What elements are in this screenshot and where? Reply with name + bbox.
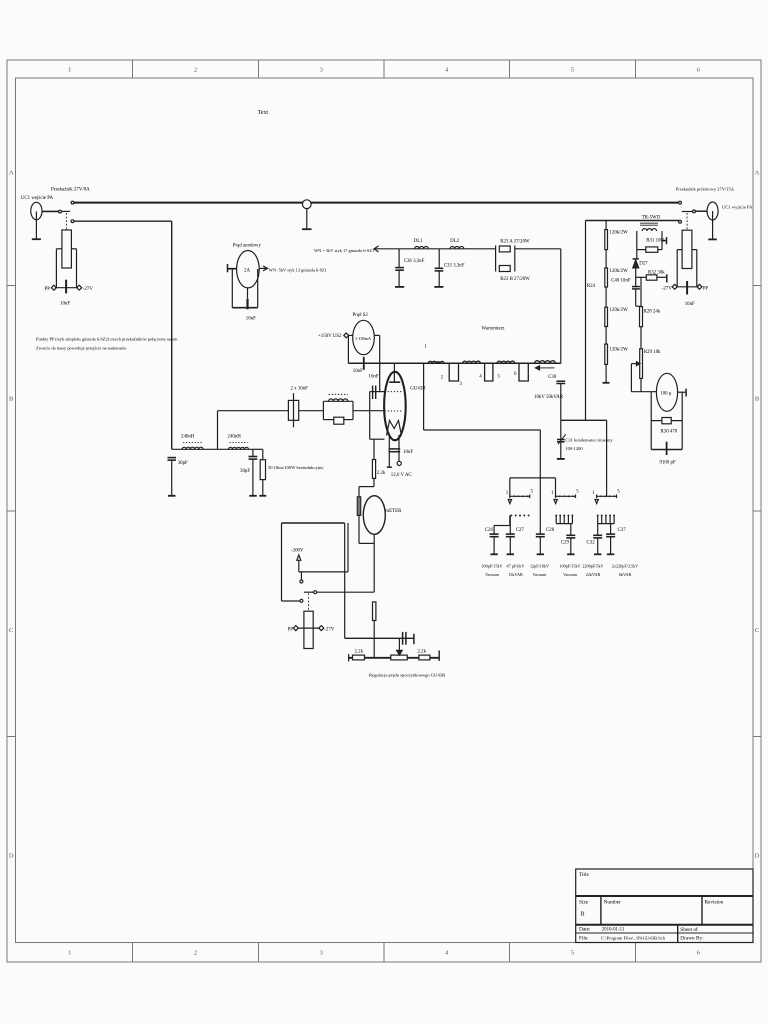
svg-text:C32: C32	[587, 541, 596, 546]
svg-text:PP: PP	[703, 286, 709, 291]
svg-text:10nF: 10nF	[353, 369, 363, 374]
svg-text:C28: C28	[546, 528, 555, 533]
svg-text:120k/2W: 120k/2W	[610, 348, 629, 353]
svg-text:+150V US2: +150V US2	[318, 334, 342, 339]
svg-text:R31 100k: R31 100k	[646, 238, 666, 243]
svg-text:R23 A 27/20W: R23 A 27/20W	[500, 240, 530, 245]
svg-text:Regulacja prądu spoczynkowego: Regulacja prądu spoczynkowego GU43B	[369, 672, 445, 677]
svg-text:C37: C37	[618, 528, 627, 533]
svg-text:D27: D27	[639, 261, 648, 266]
svg-text:240nH: 240nH	[181, 435, 195, 440]
svg-text:100pF/15kV: 100pF/15kV	[559, 564, 580, 569]
svg-text:9100 pF: 9100 pF	[660, 461, 676, 466]
svg-text:DL1: DL1	[414, 239, 424, 244]
svg-text:3: 3	[320, 950, 323, 957]
svg-text:30pF: 30pF	[240, 469, 250, 474]
svg-text:-300V: -300V	[291, 549, 304, 554]
svg-text:10nF: 10nF	[246, 317, 256, 322]
svg-text:WN + 5kV styk 17 gniazda 6-SZ1: WN + 5kV styk 17 gniazda 6-SZ1	[314, 248, 374, 253]
svg-text:120k/2W: 120k/2W	[610, 269, 629, 274]
svg-text:B: B	[581, 912, 585, 918]
svg-text:2 x 10nF: 2 x 10nF	[291, 387, 309, 392]
svg-text:120k/2W: 120k/2W	[610, 231, 629, 236]
svg-text:2.2k: 2.2k	[418, 649, 427, 654]
svg-text:Revision: Revision	[705, 900, 724, 906]
svg-text:Przekaźnik 27V/8A: Przekaźnik 27V/8A	[51, 188, 90, 193]
svg-text:30pF: 30pF	[178, 461, 188, 466]
svg-text:R32 30k: R32 30k	[648, 270, 665, 275]
svg-text:C36 3,3nF: C36 3,3nF	[404, 259, 425, 264]
svg-text:UC1 wyjście PA: UC1 wyjście PA	[722, 205, 753, 210]
svg-text:Size: Size	[579, 900, 589, 906]
svg-text:C33 3,3nF: C33 3,3nF	[444, 264, 465, 269]
svg-text:Przekaźnik próżniowy 27V/15A: Przekaźnik próżniowy 27V/15A	[676, 187, 735, 192]
svg-text:R28 24k: R28 24k	[644, 309, 661, 314]
svg-text:Text: Text	[258, 110, 269, 116]
svg-text:2200pF/5kV: 2200pF/5kV	[582, 564, 603, 569]
svg-text:47 pF/6kV: 47 pF/6kV	[506, 564, 524, 569]
svg-text:PP: PP	[45, 287, 51, 292]
svg-text:D: D	[755, 853, 760, 860]
svg-text:Punkty PP (styk simpleks gniaz: Punkty PP (styk simpleks gniazda 6-SZ2) …	[36, 337, 178, 342]
svg-text:Drawn By:: Drawn By:	[680, 935, 704, 941]
svg-text:6kVAR: 6kVAR	[619, 572, 632, 577]
svg-text:DL2: DL2	[450, 239, 460, 244]
svg-text:Prąd S2: Prąd S2	[353, 313, 369, 318]
svg-text:10kV 50kVAR: 10kV 50kVAR	[534, 395, 564, 400]
svg-text:TR-5WD: TR-5WD	[642, 215, 661, 220]
svg-text:5: 5	[571, 950, 574, 957]
svg-text:2.2k: 2.2k	[355, 649, 364, 654]
svg-text:100-1200: 100-1200	[565, 446, 583, 451]
svg-text:2010-01-11: 2010-01-11	[602, 928, 625, 933]
svg-text:Wariomierz: Wariomierz	[482, 327, 506, 332]
svg-text:2.2k: 2.2k	[377, 471, 386, 476]
svg-text:1: 1	[68, 950, 71, 957]
svg-text:C: C	[755, 627, 759, 634]
svg-text:10nF: 10nF	[60, 302, 70, 307]
svg-text:File:: File:	[579, 935, 589, 941]
svg-text:R24: R24	[587, 284, 596, 289]
svg-text:D: D	[9, 853, 14, 860]
svg-text:R30 470: R30 470	[661, 429, 678, 434]
svg-text:PP: PP	[288, 628, 294, 633]
svg-text:12pF/10kV: 12pF/10kV	[530, 564, 549, 569]
svg-text:2: 2	[194, 67, 197, 74]
svg-text:Vacuum: Vacuum	[533, 572, 547, 577]
svg-text:WN -5kV styk 13 gniazda 6-SZ1: WN -5kV styk 13 gniazda 6-SZ1	[269, 268, 327, 273]
svg-text:C: C	[9, 627, 13, 634]
svg-text:-27V: -27V	[324, 628, 335, 633]
svg-text:C29: C29	[561, 541, 570, 546]
svg-text:100 µ: 100 µ	[660, 392, 671, 397]
svg-text:A: A	[755, 170, 760, 177]
svg-text:R29 10k: R29 10k	[644, 350, 661, 355]
svg-text:B: B	[755, 396, 760, 403]
svg-text:C30: C30	[548, 375, 557, 380]
svg-text:-27V: -27V	[83, 287, 94, 292]
svg-text:10nF: 10nF	[403, 450, 413, 455]
svg-text:300pF/15kV: 300pF/15kV	[481, 564, 502, 569]
svg-text:240nH: 240nH	[228, 435, 242, 440]
svg-text:C27: C27	[516, 528, 525, 533]
svg-text:UC1 wejście PA: UC1 wejście PA	[21, 196, 54, 201]
svg-text:A: A	[9, 170, 14, 177]
svg-text:C:\Program Files\..\PAGU43B.Sc: C:\Program Files\..\PAGU43B.Sch	[601, 935, 666, 940]
svg-text:1: 1	[68, 67, 71, 74]
svg-text:-27V: -27V	[662, 286, 673, 291]
svg-text:2A: 2A	[244, 269, 250, 274]
svg-text:10nF: 10nF	[369, 375, 379, 380]
svg-text:120k/2W: 120k/2W	[610, 308, 629, 313]
svg-text:3: 3	[320, 67, 323, 74]
svg-text:12,6 V AC: 12,6 V AC	[391, 473, 412, 478]
svg-text:Vacuum: Vacuum	[485, 572, 499, 577]
svg-text:Prąd anodowy: Prąd anodowy	[233, 244, 262, 249]
svg-text:C40 10nF: C40 10nF	[611, 278, 631, 283]
svg-text:22kVAR: 22kVAR	[586, 572, 601, 577]
svg-text:Title: Title	[579, 872, 589, 878]
svg-text:Date:: Date:	[579, 927, 591, 933]
svg-text:C31 kondensator zmienny: C31 kondensator zmienny	[565, 437, 613, 442]
svg-text:2: 2	[194, 950, 197, 957]
svg-text:Vacuum: Vacuum	[563, 572, 577, 577]
svg-text:C26: C26	[485, 528, 494, 533]
svg-text:50 Ohm/100W bezindukcyjny: 50 Ohm/100W bezindukcyjny	[268, 465, 324, 470]
svg-text:mETER: mETER	[385, 509, 402, 514]
svg-text:10nF: 10nF	[685, 302, 695, 307]
svg-text:Number: Number	[604, 900, 622, 906]
svg-text:1-100mA: 1-100mA	[355, 336, 371, 341]
svg-text:5: 5	[571, 67, 574, 74]
svg-text:R23 B 27/20W: R23 B 27/20W	[500, 277, 530, 282]
svg-text:B: B	[9, 396, 14, 403]
svg-text:Sheet of: Sheet of	[680, 926, 698, 933]
svg-text:15kVAR: 15kVAR	[508, 572, 523, 577]
svg-text:Zwarcie do masy powoduje przej: Zwarcie do masy powoduje przejście na na…	[36, 346, 127, 351]
